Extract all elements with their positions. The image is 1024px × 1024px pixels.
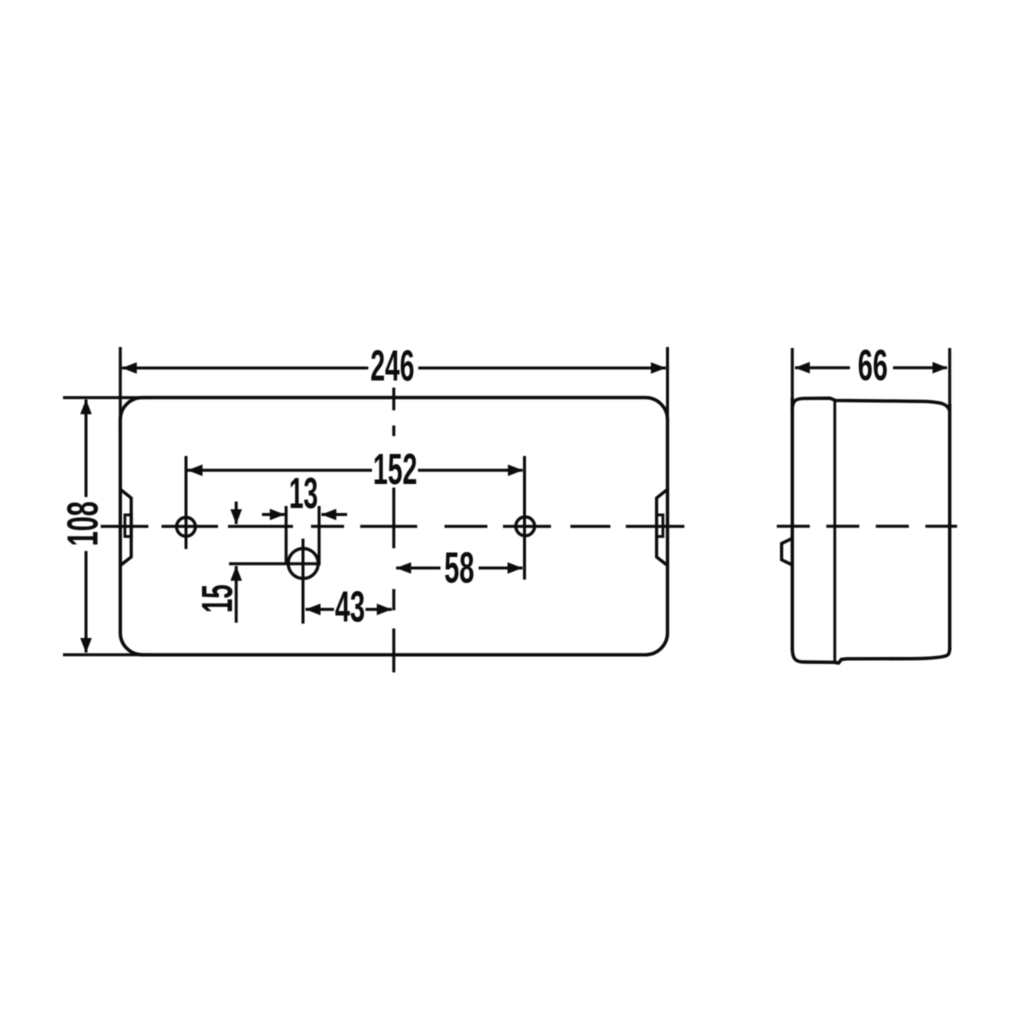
svg-text:13: 13: [289, 470, 318, 518]
svg-text:108: 108: [60, 501, 108, 546]
svg-text:58: 58: [444, 545, 474, 593]
svg-text:15: 15: [194, 584, 242, 613]
svg-text:66: 66: [858, 342, 888, 390]
svg-text:43: 43: [335, 584, 365, 632]
svg-text:152: 152: [373, 446, 417, 494]
svg-text:246: 246: [370, 343, 414, 391]
